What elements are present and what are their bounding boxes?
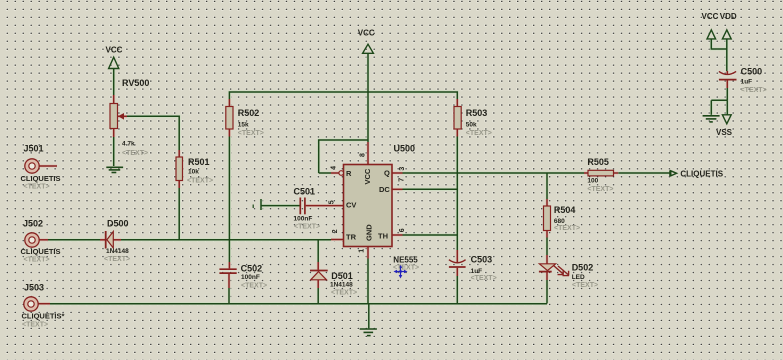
svg-text:<TEXT>: <TEXT> bbox=[554, 225, 580, 232]
svg-text:R502: R502 bbox=[238, 108, 260, 118]
svg-text:R: R bbox=[346, 169, 352, 178]
svg-text:NE555: NE555 bbox=[393, 256, 418, 265]
svg-text:C500: C500 bbox=[741, 67, 763, 77]
svg-text:TR: TR bbox=[346, 233, 357, 242]
svg-text:<TEXT>: <TEXT> bbox=[466, 130, 492, 137]
svg-text:100: 100 bbox=[587, 178, 598, 185]
svg-text:CLIQUETIS: CLIQUETIS bbox=[21, 174, 61, 183]
svg-text:DC: DC bbox=[379, 185, 390, 194]
svg-text:<TEXT>: <TEXT> bbox=[122, 150, 148, 157]
svg-text:<TEXT>: <TEXT> bbox=[393, 264, 419, 271]
svg-text:R504: R504 bbox=[554, 205, 576, 215]
svg-text:<TEXT>: <TEXT> bbox=[741, 87, 767, 94]
svg-text:J502: J502 bbox=[23, 219, 43, 229]
svg-text:TH: TH bbox=[378, 232, 388, 241]
svg-text:<TEXT>: <TEXT> bbox=[104, 256, 130, 263]
svg-text:LED: LED bbox=[572, 274, 585, 281]
svg-text:2: 2 bbox=[332, 229, 339, 233]
svg-text:<TEXT>: <TEXT> bbox=[331, 289, 357, 296]
svg-text:VCC: VCC bbox=[106, 45, 123, 54]
svg-text:D501: D501 bbox=[331, 271, 353, 281]
svg-text:100nF: 100nF bbox=[294, 216, 313, 223]
svg-text:<TEXT>: <TEXT> bbox=[24, 257, 50, 264]
svg-text:680: 680 bbox=[554, 218, 565, 225]
svg-text:CLIQUETIS*: CLIQUETIS* bbox=[22, 312, 65, 321]
svg-text:6: 6 bbox=[399, 228, 406, 232]
svg-text:100nF: 100nF bbox=[241, 274, 260, 281]
svg-text:<TEXT>: <TEXT> bbox=[22, 321, 48, 328]
svg-text:5: 5 bbox=[329, 200, 336, 204]
svg-text:50k: 50k bbox=[466, 121, 477, 128]
svg-text:4.7k: 4.7k bbox=[122, 141, 135, 148]
svg-text:R505: R505 bbox=[587, 157, 609, 167]
svg-text:C501: C501 bbox=[294, 187, 316, 197]
svg-text:<TEXT>: <TEXT> bbox=[294, 223, 320, 230]
svg-text:1N4148: 1N4148 bbox=[330, 281, 353, 288]
svg-text:7: 7 bbox=[398, 178, 405, 182]
svg-text:VDD: VDD bbox=[720, 12, 737, 21]
svg-text:1uF: 1uF bbox=[741, 79, 753, 86]
svg-text:J503: J503 bbox=[24, 283, 44, 293]
svg-text:C503: C503 bbox=[471, 254, 493, 264]
svg-text:C502: C502 bbox=[241, 264, 263, 274]
svg-text:R501: R501 bbox=[188, 157, 210, 167]
svg-text:CLIQUETIS: CLIQUETIS bbox=[21, 247, 61, 256]
svg-text:<TEXT>: <TEXT> bbox=[241, 282, 267, 289]
svg-text:D500: D500 bbox=[107, 219, 129, 229]
svg-text:4: 4 bbox=[330, 166, 337, 170]
svg-text:10k: 10k bbox=[188, 168, 199, 175]
svg-text:VCC: VCC bbox=[363, 168, 372, 184]
svg-text:GND: GND bbox=[365, 224, 374, 241]
svg-text:15k: 15k bbox=[238, 121, 249, 128]
svg-text:J501: J501 bbox=[24, 144, 44, 154]
svg-text:R503: R503 bbox=[466, 108, 488, 118]
svg-text:8: 8 bbox=[359, 153, 366, 157]
svg-text:CLIQUETIS: CLIQUETIS bbox=[680, 169, 723, 178]
svg-text:1N4148: 1N4148 bbox=[106, 248, 129, 255]
svg-text:VCC: VCC bbox=[702, 12, 719, 21]
svg-text:1: 1 bbox=[359, 249, 366, 253]
svg-text:RV500: RV500 bbox=[122, 78, 149, 88]
svg-text:CV: CV bbox=[346, 201, 356, 210]
svg-text:<TEXT>: <TEXT> bbox=[572, 282, 598, 289]
svg-text:<TEXT>: <TEXT> bbox=[587, 186, 613, 193]
svg-text:<TEXT>: <TEXT> bbox=[471, 275, 497, 282]
svg-text:<TEXT>: <TEXT> bbox=[238, 130, 264, 137]
svg-text:3: 3 bbox=[399, 167, 406, 171]
svg-text:VSS: VSS bbox=[716, 128, 733, 137]
svg-text:<TEXT>: <TEXT> bbox=[187, 177, 213, 184]
svg-text:U500: U500 bbox=[394, 144, 416, 154]
svg-text:Q: Q bbox=[384, 169, 390, 178]
svg-text:<TEXT>: <TEXT> bbox=[24, 183, 50, 190]
svg-text:D502: D502 bbox=[572, 262, 594, 272]
svg-text:VCC: VCC bbox=[358, 28, 375, 37]
